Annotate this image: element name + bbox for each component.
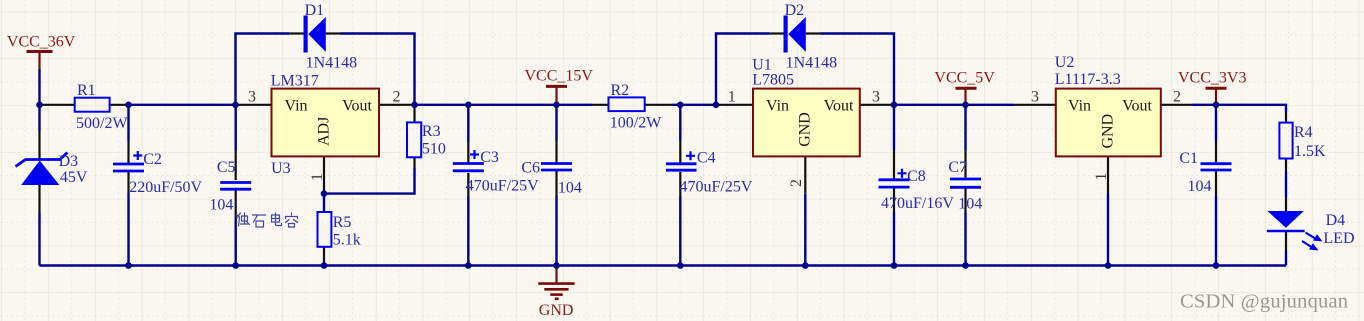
wire C8 top pin xyxy=(893,150,895,179)
svg-text:470uF/25V: 470uF/25V xyxy=(680,178,753,195)
wire R3 top pin xyxy=(413,105,415,123)
capacitor C4 plus xyxy=(686,151,695,160)
svg-text:104: 104 xyxy=(1188,178,1212,195)
wire C3 branch upper xyxy=(467,105,469,142)
wire C7 branch upper xyxy=(964,105,966,150)
wire R1 right pin to node B xyxy=(110,104,129,106)
wire node G to U2 area xyxy=(894,104,1014,106)
capacitor C2 plus xyxy=(133,151,142,160)
wire to node F xyxy=(672,104,716,106)
resistor R1 xyxy=(75,98,110,112)
junction dots bottom rail xyxy=(125,262,1219,269)
svg-text:3: 3 xyxy=(1031,89,1039,106)
wire U1 pin1 stub xyxy=(716,104,753,106)
wire R4 top pin xyxy=(1285,112,1287,123)
wire D2 bypass right xyxy=(821,34,895,105)
wire C4 bottom pin xyxy=(679,172,681,196)
svg-text:470uF/16V: 470uF/16V xyxy=(881,195,954,212)
wire R2 left pin xyxy=(592,104,609,106)
wire C3 to bottom rail xyxy=(467,196,469,266)
svg-text:Vout: Vout xyxy=(824,98,854,115)
svg-text:104: 104 xyxy=(958,196,982,213)
capacitor C8 plates xyxy=(879,180,910,187)
capacitor C3 plates xyxy=(453,164,484,171)
power VCC_36V stub xyxy=(38,52,40,70)
note chinese monolithic capacitor xyxy=(237,213,298,227)
svg-text:45V: 45V xyxy=(60,169,88,186)
wire C6 top pin xyxy=(555,141,557,162)
wire C5 bottom pin xyxy=(235,190,237,220)
op-amp U3 regulator body LM317 xyxy=(272,89,380,157)
svg-text:R2: R2 xyxy=(611,82,630,99)
wire R2 right pin xyxy=(645,104,672,106)
svg-text:Vout: Vout xyxy=(1122,98,1152,115)
wire D2 cathode pin xyxy=(806,32,821,34)
power VCC_5V stub xyxy=(964,88,966,105)
capacitor C8 plus xyxy=(898,169,907,178)
op-amp U1 regulator body L7805 xyxy=(753,89,860,157)
svg-text:C5: C5 xyxy=(217,159,236,176)
wire C4 top pin xyxy=(679,141,681,163)
power bar VCC_15V xyxy=(546,85,567,88)
svg-text:500/2W: 500/2W xyxy=(76,115,128,132)
diode D1 xyxy=(304,16,326,53)
svg-text:1N4148: 1N4148 xyxy=(786,55,838,72)
wire D3 top pin xyxy=(38,131,40,160)
wire R5 bottom pin xyxy=(323,247,325,266)
svg-text:1: 1 xyxy=(1093,173,1110,181)
wire C6 branch upper xyxy=(555,105,557,141)
svg-text:GND: GND xyxy=(539,302,574,319)
svg-text:D4: D4 xyxy=(1326,212,1346,229)
capacitor C2 plates xyxy=(113,164,144,171)
wire C2 bottom pin xyxy=(127,172,129,194)
svg-text:L1117-3.3: L1117-3.3 xyxy=(1055,71,1121,88)
wire D2 anode pin xyxy=(770,32,784,34)
capacitor C1 plates xyxy=(1201,164,1232,170)
svg-text:2: 2 xyxy=(788,179,805,187)
svg-text:R5: R5 xyxy=(333,214,352,231)
wire node B to node C xyxy=(129,104,236,106)
wire D4 top pin xyxy=(1285,197,1287,212)
svg-text:C8: C8 xyxy=(907,168,926,185)
wire U2 pin3 stub xyxy=(1014,104,1056,106)
wire C1 bottom pin xyxy=(1215,172,1217,197)
wire D1 bypass right xyxy=(341,34,415,105)
svg-text:1N4148: 1N4148 xyxy=(306,55,358,72)
svg-text:C4: C4 xyxy=(697,149,716,166)
ground stub xyxy=(555,266,557,284)
svg-text:D3: D3 xyxy=(59,153,79,170)
wire D4 bottom pin xyxy=(1285,231,1287,251)
wire U2 pin2 stub xyxy=(1161,104,1192,106)
svg-text:C1: C1 xyxy=(1179,150,1198,167)
wire D3 bottom pin xyxy=(38,185,40,213)
svg-text:ADJ: ADJ xyxy=(316,117,333,146)
svg-text:470uF/25V: 470uF/25V xyxy=(466,177,539,194)
wire D3 to bottom rail xyxy=(38,213,40,266)
wire C2 to bottom rail xyxy=(127,193,129,266)
svg-text:D2: D2 xyxy=(785,2,805,19)
svg-text:3: 3 xyxy=(872,89,880,106)
wire C5 branch upper xyxy=(234,105,236,151)
svg-text:Vin: Vin xyxy=(285,98,308,115)
LED D4 xyxy=(1267,211,1323,251)
svg-text:GND: GND xyxy=(1100,114,1117,149)
wire ADJ node to R5 xyxy=(323,194,325,212)
wire R3 to ADJ node xyxy=(324,168,415,194)
svg-text:Vin: Vin xyxy=(1068,98,1091,115)
svg-text:LM317: LM317 xyxy=(271,73,319,90)
wire D1 cathode pin xyxy=(326,32,341,34)
resistor R3 xyxy=(407,122,421,157)
svg-text:104: 104 xyxy=(209,196,233,213)
svg-text:LED: LED xyxy=(1323,230,1354,247)
wire U3 pin2 stub xyxy=(379,104,415,106)
svg-text:3: 3 xyxy=(248,89,256,106)
wire R3 bottom pin xyxy=(413,157,415,168)
wire U2 GND pin xyxy=(1107,156,1109,194)
wire top rail: node A to R1 pin xyxy=(40,104,75,106)
wire U1 GND pin xyxy=(804,156,806,193)
capacitor C5 plates xyxy=(220,183,251,190)
wire C1 top pin xyxy=(1215,141,1217,162)
capacitor C4 plates xyxy=(666,164,697,170)
wire VCC_36V to top rail xyxy=(38,69,40,105)
svg-text:R4: R4 xyxy=(1294,124,1313,141)
svg-text:U2: U2 xyxy=(1055,54,1075,71)
svg-text:510: 510 xyxy=(422,141,446,158)
power bar VCC_36V xyxy=(27,50,53,53)
svg-text:1: 1 xyxy=(309,173,326,181)
power VCC_15V stub xyxy=(555,86,557,105)
capacitor C6 plates xyxy=(541,164,572,171)
svg-text:VCC_36V: VCC_36V xyxy=(7,34,76,51)
wire C4 branch upper xyxy=(679,105,681,141)
svg-text:U3: U3 xyxy=(271,160,291,177)
wire C6 to bottom rail xyxy=(555,196,557,266)
svg-text:L7805: L7805 xyxy=(752,72,794,89)
diode D2 xyxy=(784,16,806,53)
wire C8 bottom pin xyxy=(893,189,895,213)
wire D2 bypass left xyxy=(716,34,770,105)
wire C1 branch upper xyxy=(1215,105,1217,141)
svg-text:GND: GND xyxy=(797,112,814,147)
wire C8 branch upper xyxy=(893,105,895,150)
svg-text:1: 1 xyxy=(728,89,736,106)
svg-text:1.5K: 1.5K xyxy=(1294,143,1326,160)
svg-text:2: 2 xyxy=(1173,89,1181,106)
power VCC_3V3 stub xyxy=(1215,88,1217,105)
svg-text:220uF/50V: 220uF/50V xyxy=(129,179,202,196)
zener D3 xyxy=(16,153,68,186)
svg-text:VCC_15V: VCC_15V xyxy=(525,68,594,85)
wire R4 bottom pin xyxy=(1285,159,1287,173)
wire C2 branch upper xyxy=(127,105,129,141)
wire C3 top pin xyxy=(467,142,469,164)
power bar VCC_3V3 xyxy=(1206,87,1227,90)
wire U3 pin3 stub xyxy=(236,104,272,106)
junction dot ADJ node xyxy=(321,190,328,197)
wire C5 to bottom rail xyxy=(234,219,236,266)
svg-text:VCC_5V: VCC_5V xyxy=(934,70,995,87)
wire C4 to bottom rail xyxy=(679,196,681,266)
svg-text:5.1k: 5.1k xyxy=(333,232,361,249)
wire C1 to bottom rail xyxy=(1215,196,1217,266)
svg-text:R1: R1 xyxy=(77,82,96,99)
wire C7 bottom pin xyxy=(964,189,966,213)
svg-text:VCC_3V3: VCC_3V3 xyxy=(1178,70,1246,87)
svg-text:D1: D1 xyxy=(305,2,325,19)
wire C6 bottom pin xyxy=(555,171,557,196)
wire to right corner xyxy=(1192,105,1286,112)
resistor R4 xyxy=(1279,123,1292,159)
wire C3 bottom pin xyxy=(467,173,469,196)
svg-text:C7: C7 xyxy=(948,159,967,176)
svg-text:Vin: Vin xyxy=(766,98,789,115)
svg-text:C3: C3 xyxy=(480,149,499,166)
wire U3 ADJ pin xyxy=(323,156,325,193)
ground bars xyxy=(538,284,574,299)
capacitor C3 plus xyxy=(470,150,479,159)
wire D1 anode pin xyxy=(290,32,304,34)
wire D1 bypass left xyxy=(236,34,290,105)
svg-text:R3: R3 xyxy=(422,123,441,140)
junction dots top rail xyxy=(36,102,1219,109)
wire node D to R2 area xyxy=(415,104,593,106)
op-amp U2 regulator body L1117 xyxy=(1056,89,1161,157)
wire U1 pin3 stub xyxy=(860,104,894,106)
wire D4 to bottom rail xyxy=(1285,251,1287,266)
wire U1 GND to bottom rail xyxy=(804,194,806,266)
wire bottom rail xyxy=(40,264,1287,266)
svg-text:CSDN @gujunquan: CSDN @gujunquan xyxy=(1180,291,1348,313)
wire C7 to bottom rail xyxy=(964,212,966,266)
resistor R2 xyxy=(609,97,645,111)
wire C5 top pin xyxy=(235,151,237,180)
svg-text:104: 104 xyxy=(558,180,582,197)
wire C7 top pin xyxy=(964,150,966,178)
wire R4 to D4 xyxy=(1285,172,1287,197)
wire D3 branch upper xyxy=(38,105,40,131)
svg-text:C6: C6 xyxy=(521,160,540,177)
power bar VCC_5V xyxy=(956,87,977,90)
wire C8 to bottom rail xyxy=(893,212,895,266)
resistor R5 xyxy=(318,212,332,247)
svg-text:C2: C2 xyxy=(143,151,162,168)
svg-text:2: 2 xyxy=(393,89,401,106)
capacitor C7 plates xyxy=(950,179,981,187)
svg-text:Vout: Vout xyxy=(342,98,372,115)
svg-text:100/2W: 100/2W xyxy=(610,115,662,132)
wire C2 top pin xyxy=(127,141,129,163)
wire U2 GND to bottom rail xyxy=(1107,194,1109,266)
